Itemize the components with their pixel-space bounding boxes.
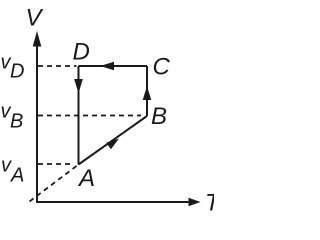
svg-text:T: T	[205, 189, 214, 212]
svg-text:A: A	[10, 165, 24, 187]
arrow D to A (down)	[74, 79, 83, 94]
dashed level vA	[38, 163, 72, 165]
svg-text:B: B	[10, 111, 23, 133]
arrow C to D (left)	[100, 62, 114, 71]
svg-text:V: V	[26, 5, 44, 32]
wire A to B	[79, 116, 148, 165]
wire y-axis V	[36, 40, 38, 203]
svg-text:A: A	[77, 165, 95, 192]
svg-text:D: D	[73, 39, 90, 66]
arrow B to C (up)	[143, 86, 152, 100]
x-axis arrowhead	[189, 198, 201, 207]
y-axis arrowhead	[33, 31, 42, 47]
svg-text:D: D	[10, 61, 24, 83]
dashed level vD	[38, 65, 77, 67]
svg-text:C: C	[153, 54, 171, 81]
svg-text:B: B	[151, 103, 167, 130]
wire B to C	[146, 66, 148, 116]
wire x-axis T	[36, 201, 191, 203]
arrow A to B (up-right)	[106, 139, 119, 150]
dashed extension of BA line toward origin	[30, 165, 79, 202]
dashed level vB	[38, 115, 141, 117]
wire D to A	[78, 66, 80, 165]
wire C to D	[79, 65, 148, 67]
